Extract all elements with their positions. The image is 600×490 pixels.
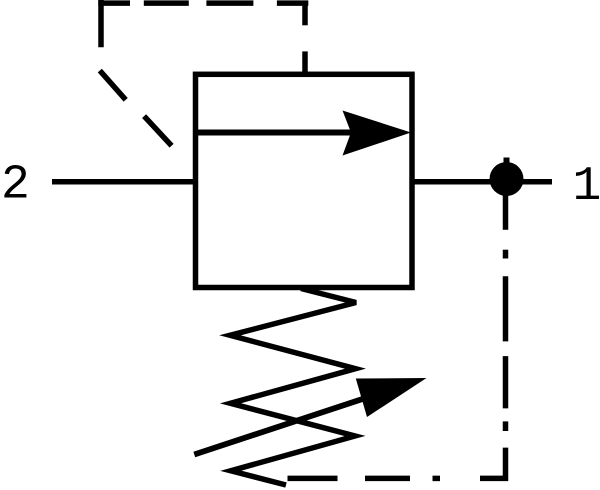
svg-text:2: 2 [1,159,30,213]
svg-text:1: 1 [573,160,600,214]
